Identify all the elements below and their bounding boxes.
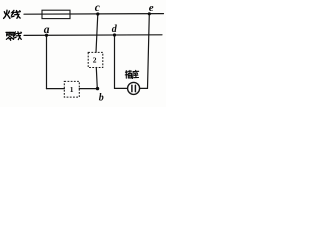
- label 零线 (neutral wire) hand-drawn: [6, 32, 22, 41]
- svg-text:2: 2: [93, 55, 97, 64]
- node e junction dot: [148, 12, 151, 15]
- wire right riser up to node e: [148, 14, 150, 89]
- wire branch c down to dashed box 2: [96, 14, 98, 52]
- wire live line (火线): [24, 13, 164, 16]
- dashed box 1: [64, 81, 79, 97]
- svg-text:d: d: [112, 24, 118, 35]
- wire dashed box 2 down to node b: [96, 68, 97, 89]
- svg-text:1: 1: [70, 85, 74, 94]
- wire branch d down: [114, 35, 116, 88]
- node d junction dot: [113, 33, 116, 36]
- node a junction dot: [45, 34, 48, 37]
- svg-text:a: a: [44, 24, 50, 36]
- wire box 1 to node b: [79, 88, 97, 90]
- socket lamp symbol circle: [128, 82, 140, 94]
- node c junction dot: [96, 12, 99, 15]
- fuse on live line: [42, 10, 70, 18]
- svg-text:e: e: [149, 2, 154, 14]
- wire a-branch bottom horizontal to box 1: [47, 88, 65, 90]
- wire socket circle to right riser: [140, 87, 148, 89]
- label 插座 (socket) hand-drawn: [125, 70, 138, 78]
- socket symbol prong bars: [132, 85, 136, 91]
- svg-text:b: b: [99, 93, 104, 104]
- dashed box 2: [88, 52, 103, 67]
- node b junction dot: [96, 87, 99, 90]
- wire neutral line (零线): [24, 34, 162, 37]
- wire branch a down: [46, 35, 48, 88]
- label 火线 (live wire) hand-drawn: [4, 10, 21, 18]
- svg-text:c: c: [95, 2, 100, 14]
- wire d-branch bottom to socket circle: [115, 87, 128, 89]
